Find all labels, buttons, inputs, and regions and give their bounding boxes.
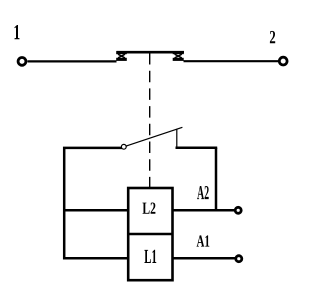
contact bridge (moving bridge bar) xyxy=(117,51,185,54)
wire coil L2 to terminal A2 xyxy=(172,209,236,212)
coil L2 label xyxy=(143,203,156,214)
fixed contact right xyxy=(173,51,184,61)
wire switch pivot side xyxy=(64,148,129,258)
coil box outline xyxy=(128,188,172,280)
terminal 1 xyxy=(18,58,26,66)
coil divider xyxy=(128,233,172,236)
switch pivot xyxy=(121,144,126,149)
wire switch to right vertical xyxy=(176,146,218,149)
terminal A1 xyxy=(236,256,242,262)
switch blade contact tail xyxy=(176,129,178,148)
coil L1 label xyxy=(144,250,156,263)
terminal 2 xyxy=(279,57,287,65)
terminal label 2 xyxy=(270,31,275,43)
terminal label A2 xyxy=(197,186,209,199)
switch blade xyxy=(126,127,182,146)
wire left to coil L2 xyxy=(63,209,130,212)
fixed contact left xyxy=(116,51,127,61)
mechanical linkage (dashed) xyxy=(149,53,151,188)
terminal label 1 xyxy=(15,25,20,39)
wire terminal1 to left fixed contact xyxy=(27,60,116,62)
terminal label A1 xyxy=(197,235,210,246)
terminal A2 xyxy=(235,207,241,213)
wire right vertical down to A2 xyxy=(215,148,218,211)
wire coil L1 to terminal A1 xyxy=(172,257,236,260)
wire right fixed contact to terminal2 xyxy=(184,60,279,62)
